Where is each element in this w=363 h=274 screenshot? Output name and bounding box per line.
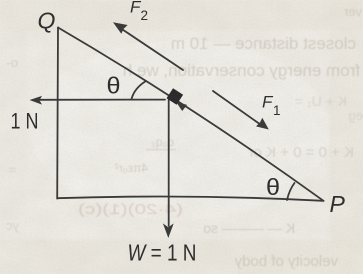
svg-text:from energy conservation, we h: from energy conservation, we h (123, 61, 360, 80)
theta arc at P (287, 183, 295, 200)
theta arc at block (132, 81, 147, 99)
vertical leg of triangle Q to bottom-left corner (56, 28, 59, 199)
base of triangle (bottom-left corner to P) (57, 197, 323, 201)
svg-text:1: 1 (273, 103, 281, 118)
svg-text:velocity of body: velocity of body (234, 253, 338, 270)
F1 force line along incline (213, 91, 259, 124)
svg-text:P: P (330, 191, 346, 217)
svg-text:2: 2 (141, 8, 149, 23)
svg-text:1 N: 1 N (11, 109, 39, 134)
svg-text:Q: Q (38, 8, 56, 34)
arrowhead of 1 N force (left) (30, 96, 43, 105)
svg-text:θ: θ (266, 174, 280, 200)
svg-text:θ: θ (107, 73, 121, 99)
svg-text:K + U₁ =: K + U₁ = (295, 93, 347, 109)
svg-text:eg: eg (349, 108, 363, 123)
incline (hypotenuse) Q to P (58, 28, 324, 201)
svg-text:(4·20)(1)(c): (4·20)(1)(c) (78, 201, 183, 218)
svg-text:4πε₀r²: 4πε₀r² (115, 161, 148, 175)
arrowhead of F1 (down-slope) (256, 118, 269, 130)
weight force vertical line from block down (168, 99, 170, 226)
svg-text:q₀q₂: q₀q₂ (151, 135, 174, 149)
block on incline (rotated square) (167, 88, 184, 105)
svg-text:closest distance — 10 m: closest distance — 10 m (171, 34, 356, 53)
svg-text:yc: yc (6, 218, 20, 233)
svg-text:K — ——— so: K — ——— so (203, 220, 295, 236)
svg-text:ver: ver (343, 4, 362, 19)
arrowhead of weight W (down) (163, 223, 174, 238)
arrowhead on incline pointing up-slope at block (176, 102, 187, 111)
horizontal 1 N force line from block to left (39, 99, 165, 101)
svg-text:=: = (8, 162, 16, 177)
svg-text:o-: o- (6, 55, 18, 70)
bleed fraction bar (146, 149, 176, 150)
F2 force line along incline (upper) (123, 30, 184, 71)
arrowhead of F2 (up-slope) (113, 22, 128, 34)
svg-text:W = 1 N: W = 1 N (128, 240, 197, 266)
